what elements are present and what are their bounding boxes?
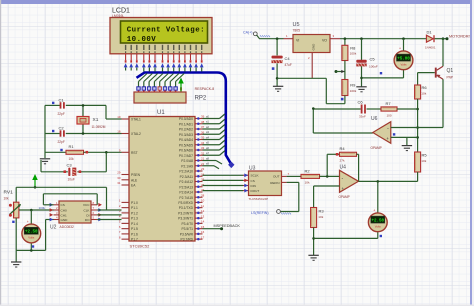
svg-text:30: 30 [117,176,121,180]
svg-text:P1.1: P1.1 [131,206,138,210]
svg-text:CS: CS [61,203,65,207]
svg-text:P2.4/A12: P2.4/A12 [179,180,193,184]
svg-text:XTAL1: XTAL1 [131,118,141,122]
svg-text:P3.0/RXD: P3.0/RXD [178,201,193,205]
svg-text:C5: C5 [370,57,376,62]
svg-text:P0.4/AD4: P0.4/AD4 [179,138,193,142]
svg-text:28: 28 [201,193,205,197]
svg-text:DIN: DIN [251,184,256,188]
svg-text:P2.3/A11: P2.3/A11 [180,175,193,179]
svg-text:Q1: Q1 [447,68,454,74]
svg-text:U2: U2 [50,225,57,231]
svg-text:P3.3/INT1: P3.3/INT1 [178,217,193,221]
svg-text:REFIN: REFIN [270,181,279,185]
svg-text:100k: 100k [350,52,357,56]
svg-text:R2: R2 [305,169,311,174]
svg-text:U6: U6 [371,116,378,122]
svg-text:Volts: Volts [375,225,382,229]
svg-text:CLK: CLK [83,208,90,212]
svg-text:GND: GND [61,218,69,222]
svg-text:ALE: ALE [131,178,138,182]
svg-text:+5.00: +5.00 [397,57,410,61]
svg-text:P1.7: P1.7 [131,238,138,242]
svg-text:DOUT: DOUT [251,189,260,193]
svg-text:+2.50: +2.50 [25,231,38,235]
svg-text:Volts: Volts [400,63,407,67]
svg-text:R1: R1 [69,144,75,149]
svg-text:CH1: CH1 [61,213,67,217]
svg-text:29: 29 [117,171,121,175]
svg-text:R9: R9 [350,83,356,88]
svg-text:RESPACK-8: RESPACK-8 [195,87,215,91]
svg-text:P0.6/AD6: P0.6/AD6 [179,149,193,153]
svg-text:10k: 10k [318,215,323,219]
svg-text:R8: R8 [350,46,356,51]
svg-text:P0.1/AD1: P0.1/AD1 [179,122,193,126]
svg-text:DO: DO [85,218,90,222]
svg-text:P1.3: P1.3 [131,217,138,221]
svg-text:C3: C3 [67,162,73,167]
svg-text:SCLK: SCLK [251,174,260,178]
svg-text:P2.2/A10: P2.2/A10 [179,170,193,174]
svg-text:P0.0/AD0: P0.0/AD0 [179,117,193,121]
svg-text:13: 13 [201,214,205,218]
svg-text:XTAL2: XTAL2 [131,132,141,136]
svg-text:10: 10 [201,199,205,203]
svg-text:22pF: 22pF [58,112,65,116]
svg-text:P2.6/A14: P2.6/A14 [179,191,193,195]
svg-text:VI: VI [296,39,299,43]
svg-text:22pF: 22pF [58,140,65,144]
svg-text:U5: U5 [293,22,300,28]
svg-text:P2.1/A9: P2.1/A9 [181,164,193,168]
svg-text:VO: VO [322,39,327,43]
svg-text:47uF: 47uF [285,63,292,67]
svg-text:CA(+): CA(+) [243,31,253,35]
svg-text:33nF: 33nF [359,115,366,119]
svg-text:R3: R3 [319,209,325,214]
svg-text:1N4001: 1N4001 [425,46,436,50]
svg-text:C2: C2 [59,125,65,130]
svg-text:OPAMP: OPAMP [339,195,350,199]
svg-text:VCC: VCC [83,203,90,207]
svg-text:100k: 100k [39,206,46,210]
svg-text:C1: C1 [59,97,65,102]
svg-text:P3.7/RD: P3.7/RD [181,238,194,242]
svg-text:CH0: CH0 [61,208,67,212]
svg-text:OUT: OUT [273,175,280,179]
svg-text:7805: 7805 [293,29,301,33]
svg-text:14: 14 [201,220,205,224]
svg-text:Volts: Volts [28,236,35,240]
svg-text:GND: GND [312,43,316,51]
svg-text:RV1: RV1 [4,190,14,196]
svg-text:16: 16 [201,230,205,234]
svg-text:10k: 10k [421,92,426,96]
svg-text:C6: C6 [358,100,364,105]
svg-text:OPAMP: OPAMP [371,146,382,150]
svg-text:25: 25 [201,178,205,182]
svg-text:P3.5/T1: P3.5/T1 [181,227,193,231]
svg-text:11.0592M: 11.0592M [92,125,106,129]
svg-text:LS(REFIN): LS(REFIN) [251,211,269,215]
svg-text:+: + [373,209,375,213]
svg-text:D1: D1 [427,30,433,35]
svg-text:R5: R5 [422,153,428,158]
svg-text:P1.4: P1.4 [131,222,138,226]
svg-text:P0.2/AD2: P0.2/AD2 [179,128,193,132]
svg-text:ADC0832: ADC0832 [60,225,74,229]
svg-text:P1.6: P1.6 [131,232,138,236]
svg-text:31: 31 [117,181,121,185]
svg-text:P0.3/AD3: P0.3/AD3 [179,133,193,137]
svg-text:+: + [27,220,29,224]
svg-text:U1: U1 [157,110,165,116]
svg-text:P0.7/AD7: P0.7/AD7 [179,154,193,158]
svg-text:11: 11 [201,204,204,208]
svg-text:RST: RST [131,151,138,155]
svg-text:P1.5: P1.5 [131,227,138,231]
svg-text:P3.1/TXD: P3.1/TXD [179,206,194,210]
svg-text:P2.0/A8: P2.0/A8 [181,159,193,163]
svg-text:+: + [399,47,401,51]
svg-text:P1.0: P1.0 [131,201,138,205]
svg-text:P3.4/T0: P3.4/T0 [181,222,193,226]
svg-text:12: 12 [201,209,205,213]
svg-text:10k: 10k [305,180,310,184]
svg-text:27k: 27k [340,158,345,162]
svg-text:10uF: 10uF [68,178,75,182]
svg-text:10k: 10k [4,197,10,201]
svg-text:P3.6/WR: P3.6/WR [180,232,194,236]
svg-text:P3.2/INT0: P3.2/INT0 [178,211,193,215]
svg-text:R7: R7 [386,101,392,106]
svg-text:C4: C4 [285,56,291,61]
svg-text:U3: U3 [249,166,256,172]
svg-text:10k: 10k [69,157,75,161]
svg-text:R6: R6 [422,85,428,90]
svg-text:MSPEEDBACK: MSPEEDBACK [214,224,241,228]
svg-text:TLC5615C2JP: TLC5615C2JP [249,197,269,201]
svg-text:RP2: RP2 [195,96,207,102]
svg-text:X1: X1 [93,117,99,123]
svg-text:CS: CS [251,179,255,183]
svg-text:17: 17 [201,235,205,239]
svg-text:+2.50: +2.50 [372,219,385,223]
svg-text:P2.5/A13: P2.5/A13 [179,185,193,189]
svg-text:DI: DI [86,213,89,217]
svg-text:100uF: 100uF [369,65,378,69]
svg-text:10k: 10k [421,159,426,163]
svg-text:PSEN: PSEN [131,173,141,177]
svg-text:P2.7/A15: P2.7/A15 [179,196,193,200]
svg-text:U4: U4 [340,165,347,171]
svg-text:STC89C52: STC89C52 [130,244,151,249]
svg-text:10.00V: 10.00V [127,36,156,44]
svg-text:P1.2: P1.2 [131,211,138,215]
svg-text:R4: R4 [340,146,346,151]
svg-text:100k: 100k [350,89,357,93]
svg-text:P0.5/AD5: P0.5/AD5 [179,143,193,147]
svg-text:Current Voltage:: Current Voltage: [127,26,205,34]
svg-text:PNP: PNP [447,76,454,80]
svg-text:23: 23 [201,167,205,171]
svg-text:100: 100 [387,114,392,118]
